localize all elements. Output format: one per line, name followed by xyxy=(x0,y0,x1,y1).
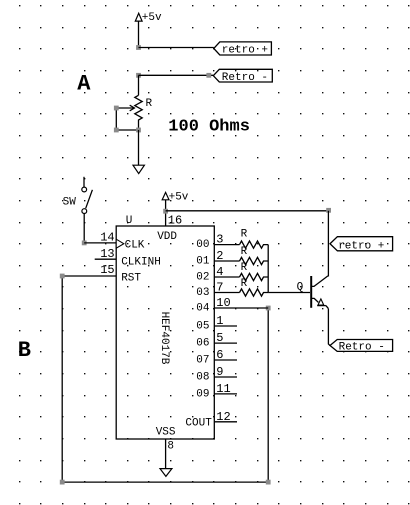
wiper loop wire to bottom xyxy=(116,108,138,130)
net flag Retro - xyxy=(213,69,272,84)
wire switch to CLK node xyxy=(83,214,85,243)
svg-text:16: 16 xyxy=(168,214,182,228)
op IC U HEF4017B body xyxy=(116,226,214,439)
svg-text:retro +: retro + xyxy=(222,44,268,56)
resistor R (O3) xyxy=(240,289,269,296)
svg-text:Retro -: Retro - xyxy=(339,341,385,353)
svg-text:U: U xyxy=(126,215,133,227)
wire pin 13 stub xyxy=(95,258,117,260)
svg-text:R: R xyxy=(241,246,248,258)
svg-text:01: 01 xyxy=(196,256,210,268)
svg-text:5: 5 xyxy=(216,331,223,345)
svg-text:Retro -: Retro - xyxy=(222,72,268,84)
svg-text:R: R xyxy=(241,262,248,274)
svg-text:100 Ohms: 100 Ohms xyxy=(168,118,250,137)
transistor Q xyxy=(311,276,328,309)
wire resistor to ground xyxy=(138,130,140,165)
svg-text:retro +: retro + xyxy=(338,240,384,252)
svg-text:8: 8 xyxy=(167,440,174,452)
pin 5 stub wire xyxy=(214,342,237,344)
pin 9 stub wire xyxy=(214,376,237,378)
svg-text:15: 15 xyxy=(100,263,114,277)
resistor R (O0) xyxy=(240,241,269,248)
ground symbol (VSS) xyxy=(160,469,172,477)
power +5v symbol (top) xyxy=(135,12,162,24)
node junction at O4/pin10 xyxy=(266,306,271,311)
svg-text:B: B xyxy=(18,338,31,363)
pin 6 stub wire xyxy=(214,359,237,361)
wire rail to base xyxy=(268,292,310,294)
node junction on VDD net xyxy=(163,209,168,214)
potentiometer wiper arrow xyxy=(116,105,134,111)
wire +5v to VDD pin 16 xyxy=(165,200,167,226)
svg-text:11: 11 xyxy=(216,382,230,396)
ground symbol (top) xyxy=(133,165,144,173)
svg-text:08: 08 xyxy=(196,372,209,384)
svg-text:03: 03 xyxy=(196,287,209,299)
wire node down to resistor R xyxy=(138,75,140,95)
svg-text:09: 09 xyxy=(196,388,209,400)
vertex square RST corner xyxy=(60,274,65,279)
wire resistor rail xyxy=(267,245,269,293)
svg-text:13: 13 xyxy=(100,247,114,261)
vertex square bottom-right corner xyxy=(266,480,271,485)
svg-text:VDD: VDD xyxy=(157,231,177,243)
svg-text:+5v: +5v xyxy=(169,192,189,204)
svg-text:14: 14 xyxy=(100,231,114,245)
svg-text:RST: RST xyxy=(121,272,141,284)
net flag retro + xyxy=(214,42,272,57)
power +5v symbol (IC) xyxy=(162,192,189,204)
svg-text:02: 02 xyxy=(196,272,209,284)
net flag Retro -. xyxy=(330,340,393,354)
svg-text:4: 4 xyxy=(216,265,223,279)
svg-text:HEF4017B: HEF4017B xyxy=(158,312,170,365)
wire VDD node to collector rail xyxy=(166,210,329,212)
wire node to retro+ flag xyxy=(139,47,214,49)
svg-text:1: 1 xyxy=(216,314,223,328)
vertex square wiper top xyxy=(114,106,119,111)
svg-text:VSS: VSS xyxy=(156,426,176,438)
node junction on +5v net xyxy=(136,45,141,50)
resistor R (O1) xyxy=(240,257,269,264)
svg-text:CLK: CLK xyxy=(125,239,145,251)
wire collector vertical xyxy=(327,211,329,277)
pin 4 stub wire xyxy=(214,276,239,278)
switch SW xyxy=(82,177,93,214)
svg-text:05: 05 xyxy=(196,321,209,333)
node square resistor bottom xyxy=(136,128,141,133)
wire emitter vertical xyxy=(328,309,330,346)
resistor R (O2) xyxy=(240,273,269,280)
svg-text:07: 07 xyxy=(196,355,209,367)
node junction at collector rail top xyxy=(326,208,331,213)
pin 3 stub wire xyxy=(214,244,239,246)
pin 1 stub wire xyxy=(214,325,237,327)
pin 7 stub wire xyxy=(214,292,239,294)
node junction on Retro- net xyxy=(136,73,141,78)
svg-text:COUT: COUT xyxy=(185,418,212,430)
wire to pin 14 xyxy=(84,242,116,244)
vertex square near Retro- flag xyxy=(206,73,211,78)
vertex square bottom-left corner xyxy=(60,480,65,485)
wire RST loop: pin15 left rail bottom rail up to O4 junction xyxy=(62,276,268,482)
net flag retro +. xyxy=(330,237,393,253)
clock input triangle pin 14 xyxy=(116,239,124,248)
svg-text:R: R xyxy=(146,98,153,110)
svg-text:Q: Q xyxy=(297,282,304,294)
wire node to Retro- flag xyxy=(139,74,214,76)
svg-text:06: 06 xyxy=(196,338,209,350)
svg-text:7: 7 xyxy=(216,281,223,295)
svg-text:6: 6 xyxy=(216,348,223,362)
svg-text:2: 2 xyxy=(216,249,223,263)
svg-text:3: 3 xyxy=(216,233,223,247)
svg-text:CLKINH: CLKINH xyxy=(121,256,161,268)
svg-text:9: 9 xyxy=(216,365,223,379)
svg-text:12: 12 xyxy=(216,410,230,424)
wire VSS pin 8 xyxy=(165,439,167,469)
resistor R (potentiometer body) xyxy=(135,95,142,130)
wire pin 10 to junction xyxy=(214,307,268,309)
pin 11 stub wire xyxy=(214,393,237,395)
pin 2 stub wire xyxy=(214,260,239,262)
svg-text:SW: SW xyxy=(63,197,77,209)
node junction at switch/CLK xyxy=(82,241,87,246)
wire +5v to node xyxy=(138,21,140,47)
svg-text:10: 10 xyxy=(216,296,230,310)
vertex square wiper bottom xyxy=(114,128,119,133)
svg-text:R: R xyxy=(241,278,248,290)
svg-text:A: A xyxy=(77,72,91,97)
svg-text:+5v: +5v xyxy=(142,12,162,24)
svg-text:R: R xyxy=(241,228,248,240)
pin 12 stub wire xyxy=(214,421,237,423)
svg-text:00: 00 xyxy=(196,239,209,251)
svg-text:04: 04 xyxy=(196,303,210,315)
